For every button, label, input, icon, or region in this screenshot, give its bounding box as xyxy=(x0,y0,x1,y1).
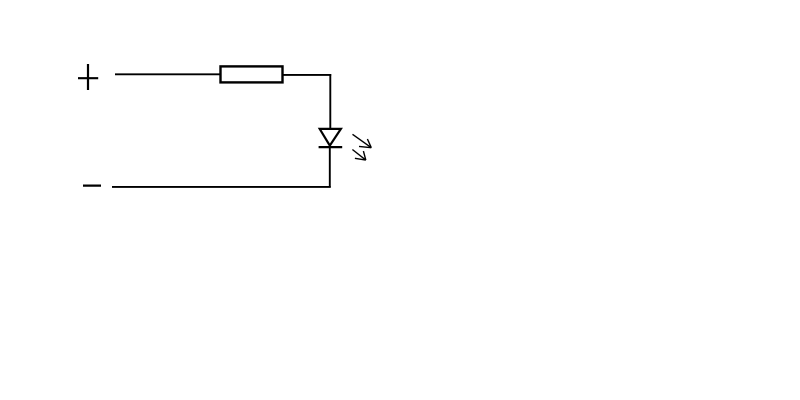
LED D1 xyxy=(319,129,343,147)
wire bottom (corner to - terminal) xyxy=(112,186,331,188)
minus terminal - xyxy=(83,185,101,187)
light arrow 1 xyxy=(353,134,372,147)
wire resistor to top-right corner xyxy=(283,74,331,76)
plus terminal + xyxy=(78,64,98,90)
wire LED cathode to bottom-right corner xyxy=(329,148,331,187)
light arrow 2 xyxy=(352,150,365,161)
wire right vertical (corner to LED anode) xyxy=(329,74,331,128)
wire top-left (+ to resistor) xyxy=(115,73,221,75)
resistor R1 xyxy=(221,66,283,82)
